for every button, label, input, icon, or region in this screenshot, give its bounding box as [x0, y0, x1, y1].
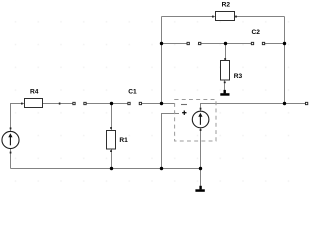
wire: second line left segment from rail to C-gap square [162, 43, 189, 45]
output terminal square at right edge [305, 102, 307, 104]
unnamed terminal gap left of C2 [187, 42, 201, 44]
svg-text:R2: R2 [222, 2, 231, 9]
junction node middle-right wire at right rail [283, 102, 286, 105]
wire: R1 branch vertical [111, 104, 113, 169]
ground symbol at bottom center [195, 186, 204, 192]
pin tick below R1 [110, 150, 112, 152]
wire: R3 to ground [224, 80, 226, 91]
junction node at R1 bottom on bottom rail [110, 167, 113, 170]
unnamed terminal gap left of C1 [73, 102, 86, 104]
wire: second line middle segment between gap and C2 [200, 43, 253, 45]
wire: left vertical rail x=161.5 from top rail down to middle wire [161, 17, 163, 104]
wire: controlled source output to right rail and beyond [201, 104, 306, 112]
svg-text:C2: C2 [252, 29, 261, 36]
wire: middle line segment from gap to C1 with junction to R1 [85, 103, 129, 105]
pin tick above R1 [110, 127, 112, 129]
wire: R3 branch vertical from second line to resistor [225, 44, 227, 62]
pin tick below R3 [224, 82, 226, 84]
junction node at R3 top [224, 42, 227, 45]
junction node controlled source on bottom rail [199, 167, 202, 170]
junction node on second line at right rail [283, 42, 286, 45]
wire: controlled source bottom lead down to bottom rail and ground [200, 128, 202, 186]
wire: middle line segment from C1 to dashed box edge [140, 103, 175, 105]
plus marker of controlled source sense terminal [182, 111, 186, 115]
svg-text:R3: R3 [234, 73, 243, 80]
wire: bottom rail [11, 168, 201, 170]
junction node sense branch on bottom rail [160, 167, 163, 170]
resistor R2 (box) [216, 12, 235, 21]
wire: second line right segment from C2 to right rail [264, 43, 285, 45]
current source IS (circle with up arrow, left) [2, 131, 19, 148]
wire: left source bottom lead [10, 149, 12, 169]
pin tick right of R2 [235, 16, 237, 18]
pin tick above left source [10, 127, 12, 129]
capacitor C2 terminals (gap with squares) [251, 42, 264, 44]
pin tick left of R2 [212, 16, 214, 18]
pin tick below left source [10, 152, 12, 154]
svg-text:C1: C1 [128, 89, 137, 96]
wire: plus sense branch from bottom rail up to plus terminal [162, 114, 180, 169]
wire: right vertical rail x=284 from top rail down to middle-right wire [284, 17, 286, 104]
pin tick above controlled source [200, 108, 202, 110]
pin tick arrow right of R4 [59, 103, 61, 105]
resistor R4 (box) [25, 99, 43, 108]
dashed subcircuit box around controlled source [175, 100, 216, 142]
wire: top rail from left corner to right corner through R2 [162, 16, 285, 18]
capacitor C1 terminals (gap with squares) [128, 102, 142, 104]
junction node on second line at left rail [160, 42, 163, 45]
pin tick left of R4 [21, 103, 23, 105]
wire: middle line from left corner through R4 to first gap [11, 104, 75, 132]
resistor R3 (box, vertical) [221, 61, 230, 81]
pin tick below controlled source [200, 129, 202, 131]
wire: dashed stub entering controlled source box [181, 104, 187, 106]
svg-text:R1: R1 [119, 137, 128, 144]
pin tick above R3 [224, 58, 226, 60]
junction node middle wire at left rail [160, 102, 163, 105]
ground symbol below R3 [220, 90, 229, 96]
controlled current source (circle with up arrow, in dashed box) [192, 111, 209, 128]
svg-text:R4: R4 [30, 89, 39, 96]
resistor R1 (box, vertical) [107, 131, 116, 150]
junction node at R1 top [110, 102, 113, 105]
